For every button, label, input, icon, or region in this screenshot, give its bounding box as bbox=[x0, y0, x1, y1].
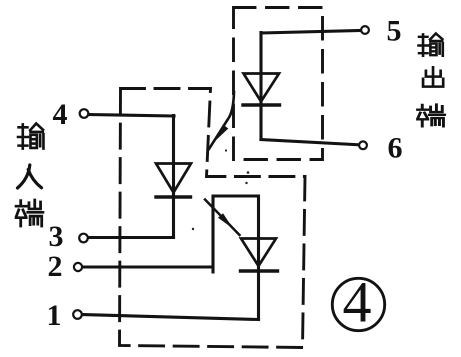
svg-text:2: 2 bbox=[48, 250, 63, 283]
LED A (input diode, pins 4-3) bbox=[156, 164, 191, 193]
wire: LED C cathode to terminal 1 bbox=[80, 315, 259, 320]
terminal 6 node bbox=[359, 141, 367, 149]
svg-text:3: 3 bbox=[49, 220, 64, 253]
output-side dashed enclosure bbox=[234, 8, 323, 160]
terminal 4 node bbox=[80, 109, 89, 118]
terminal 5 node bbox=[361, 26, 369, 34]
svg-text:1: 1 bbox=[47, 299, 62, 332]
figure number 4 (circled) bbox=[332, 270, 384, 335]
label: output-side 输 bbox=[419, 34, 443, 56]
label: output-side 端 bbox=[418, 105, 445, 127]
terminal 2 node bbox=[74, 263, 82, 271]
photodiode B (output diode, pins 5-6) bbox=[244, 74, 280, 102]
wire: LED A cathode to terminal 3 bbox=[88, 236, 174, 239]
wire: terminal 2 to LED C anode bbox=[82, 196, 259, 320]
label: output-side 出 bbox=[423, 67, 443, 86]
wire: terminal 4 to LED A anode bbox=[88, 115, 174, 238]
terminal 1 node bbox=[73, 310, 82, 319]
scan speckles bbox=[192, 149, 250, 230]
light arrow (upper coupler) bbox=[209, 92, 234, 149]
light arrow (lower coupler) bbox=[205, 200, 240, 236]
label: input-side 端 bbox=[16, 200, 43, 226]
svg-text:4: 4 bbox=[53, 98, 68, 131]
input-side dashed enclosure (L-shaped) bbox=[120, 89, 306, 348]
svg-text:4: 4 bbox=[343, 270, 372, 335]
LED C (input diode, pins 2-1) bbox=[241, 239, 276, 267]
terminal 3 node bbox=[79, 234, 88, 243]
svg-text:6: 6 bbox=[388, 132, 403, 165]
label: input-side 输 bbox=[18, 124, 43, 149]
wire: terminal 5 to photodiode B anode bbox=[261, 31, 361, 140]
svg-text:5: 5 bbox=[387, 14, 402, 47]
wire: photodiode B cathode to terminal 6 bbox=[261, 140, 359, 145]
label: input-side 入 bbox=[18, 165, 42, 188]
